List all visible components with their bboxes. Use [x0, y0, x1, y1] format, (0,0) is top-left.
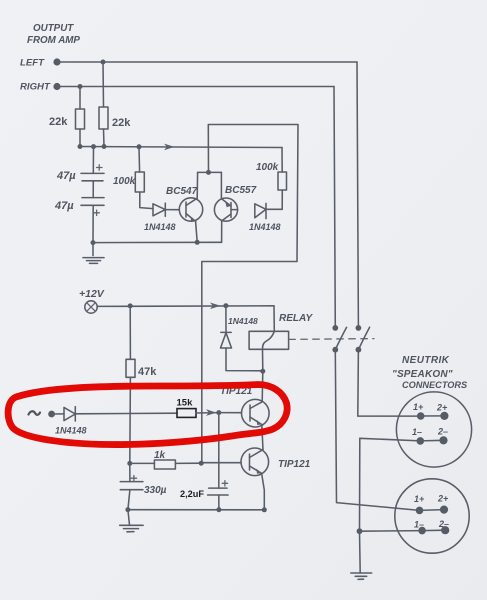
svg-text:100k: 100k [113, 176, 136, 187]
wire SW2 to upper speakon 1+ [358, 350, 417, 416]
transistor Q1 BC547 [166, 172, 203, 242]
ground bottom left [120, 510, 143, 532]
svg-text:2–: 2– [437, 427, 448, 437]
wire +12V rail [97, 305, 274, 308]
arrow before base node [206, 409, 217, 416]
resistor R3 100k [113, 147, 153, 209]
svg-text:15k: 15k [177, 398, 194, 409]
svg-text:NEUTRIK: NEUTRIK [402, 355, 450, 366]
capacitor C2 47u [54, 181, 104, 216]
red marker highlight oval [8, 385, 287, 445]
connector J2 speakon lower [395, 479, 469, 553]
wire cap to ground node [92, 205, 94, 242]
wire LEFT vertical down right side [357, 62, 358, 328]
transistor Q4 TIP121 [202, 448, 311, 510]
diode D2 1N4148 [249, 203, 282, 232]
capacitor C1 47u [56, 147, 104, 182]
svg-text:1N4148: 1N4148 [228, 316, 258, 326]
svg-text:BC547: BC547 [166, 186, 198, 197]
resistor R4 100k [256, 148, 287, 210]
svg-text:1N4148: 1N4148 [249, 222, 281, 232]
svg-text:1+: 1+ [414, 494, 425, 504]
svg-text:330µ: 330µ [144, 485, 167, 496]
node on LEFT wire [101, 60, 106, 65]
relay contact SW1 [332, 325, 346, 353]
relay K1 [249, 313, 313, 371]
svg-text:BC557: BC557 [225, 185, 257, 196]
node on RIGHT wire [78, 84, 83, 89]
terminal ~ input [29, 411, 41, 415]
wire 15k to base node [196, 412, 219, 414]
resistor R6 15k (black annotation) [177, 398, 197, 418]
arrow on +12V rail [210, 303, 221, 310]
terminal +12V [85, 301, 97, 313]
wire RIGHT horizontal [57, 86, 334, 88]
diode D4 1N4148 flyback [221, 306, 263, 371]
svg-text:22k: 22k [112, 117, 131, 129]
svg-text:22k: 22k [49, 116, 68, 128]
transistor Q3 TIP121 [220, 371, 269, 449]
wire collector tie bar [198, 171, 222, 173]
svg-text:FROM AMP: FROM AMP [27, 35, 80, 46]
diode D1 1N4148 [144, 203, 179, 232]
wire SW1 to lower speakon 1+ [335, 350, 419, 511]
svg-text:47k: 47k [138, 366, 157, 378]
svg-text:OUTPUT: OUTPUT [33, 23, 74, 34]
capacitor C4 2.2uF [180, 413, 228, 510]
title text OUTPUT FROM AMP [27, 23, 80, 46]
wire +12V to relay [273, 306, 275, 332]
svg-text:1–: 1– [412, 427, 422, 437]
wire sense bus horizontal [80, 147, 282, 148]
resistor R5 47k [126, 306, 157, 464]
svg-text:1N4148: 1N4148 [144, 222, 176, 232]
wire relay dashed link to contacts [289, 338, 374, 341]
transistor Q2 BC557 [214, 172, 256, 242]
wire feedback loop rectangle [202, 125, 298, 463]
resistor R2 22k [99, 62, 131, 147]
svg-text:2+: 2+ [437, 494, 449, 504]
wire LEFT horizontal [57, 61, 357, 63]
arrow on bus [164, 144, 175, 151]
resistor R1 22k [49, 87, 85, 147]
svg-text:TIP121: TIP121 [278, 459, 311, 470]
svg-text:1N4148: 1N4148 [55, 426, 87, 436]
svg-text:2+: 2+ [436, 403, 448, 413]
label NEUTRIK SPEAKON CONNECTORS [392, 355, 468, 390]
svg-text:CONNECTORS: CONNECTORS [402, 380, 468, 390]
svg-text:1+: 1+ [413, 402, 424, 412]
terminal LEFT [53, 58, 60, 65]
wire base node to Q3 [219, 412, 242, 414]
diode D3 1N4148 [55, 407, 87, 436]
ground right [351, 531, 372, 579]
svg-text:RIGHT: RIGHT [20, 82, 51, 93]
emitter rail wire [93, 241, 222, 243]
svg-text:2,2uF: 2,2uF [180, 489, 204, 499]
terminal RIGHT [53, 83, 60, 90]
wire RIGHT vertical down right side [334, 87, 335, 328]
connector J1 speakon upper [396, 392, 471, 467]
wire ground bus right [360, 438, 421, 531]
ground left [83, 243, 104, 264]
svg-text:LEFT: LEFT [20, 58, 45, 69]
resistor R7 1k [127, 450, 203, 469]
node cap bottom [91, 240, 96, 245]
relay contact SW2 [356, 325, 370, 353]
svg-text:+12V: +12V [79, 288, 105, 300]
svg-text:47µ: 47µ [54, 200, 74, 212]
svg-text:100k: 100k [256, 162, 279, 173]
svg-text:RELAY: RELAY [279, 313, 313, 324]
svg-text:47µ: 47µ [56, 170, 76, 182]
wire bottom rail [128, 509, 264, 511]
capacitor C3 330u [120, 463, 166, 509]
wire D3 to 15k [75, 412, 177, 415]
node junctions on bus [78, 144, 83, 149]
svg-text:"SPEAKON": "SPEAKON" [392, 369, 453, 380]
